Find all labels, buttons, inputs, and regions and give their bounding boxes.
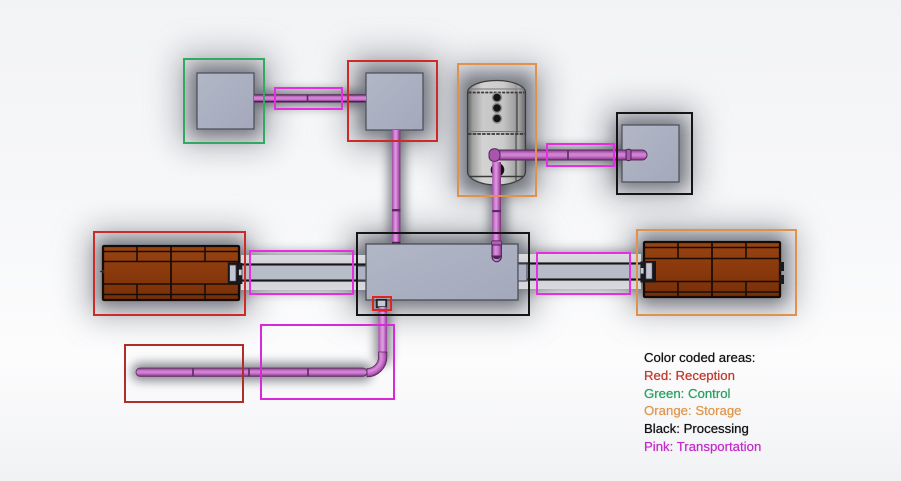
black outline: right processing area [616,112,693,195]
red outline: small nub area [372,296,392,311]
tank hole 1 [492,92,502,102]
storage tank [468,81,526,186]
gray box 1 (control) [197,73,254,129]
orange outline: right conveyor storage area [636,229,797,316]
tank bottom flange ring [491,163,505,177]
belt end bracket conveyor 2 [640,262,644,283]
pipe: tank down into processing box [492,162,502,262]
right connector tab [518,264,527,281]
roller at right end of conveyor 1 [228,263,240,285]
upper section tint [468,93,526,135]
soft shadow halo: bottom pipe riser [375,305,391,365]
soft shadow halo: right belt line [516,252,646,290]
soft shadow halo: left belt line [238,253,368,291]
soft shadow halo: right conveyor [639,236,785,303]
soft shadow halo: left conveyor [98,240,244,306]
soft shadow halo: control box [191,67,260,135]
pink outline: tank pipe transport [546,143,615,167]
belt line right (conveyor between processing box and brown box 2) [517,254,641,289]
soft shadow halo: vertical pipe from box2 [388,128,405,246]
tank mid seam [468,133,525,135]
left connector tab [357,266,366,280]
soft shadow halo: bottom pipe run [132,363,372,381]
tank hole 3 [492,113,502,123]
tank top seam [469,92,525,94]
tank right panel line [516,93,518,133]
soft shadow halo: tank right pipe [490,146,650,164]
coupling at box entry [492,241,502,245]
soft shadow halo: reception top box [360,67,429,136]
pipe: control box to reception box [254,94,366,102]
nub at right end of conveyor 2 [779,262,784,271]
soft shadow halo wide: top cluster [175,50,275,150]
pink outline: bottom pipe transport [260,324,395,400]
origin arrow marker at left of conveyor 1 [100,270,105,274]
legend [644,349,761,456]
pipe elbow at tank [489,149,500,162]
pink outline: left belt transport [249,250,354,295]
soft shadow halo: top pipe 1 [252,90,368,107]
soft shadow halo: storage tank [461,75,532,192]
green outline: control area [183,58,265,144]
pipe: tank to right gray box [489,149,647,162]
pipe: reception box down to processing box [392,130,400,244]
brown conveyor box 1 (left, reception) [100,246,243,300]
red outline: bottom pipe area [124,344,244,403]
small square nub below box [377,300,386,307]
soft shadow halo: right black box [616,119,685,188]
pink outline: right belt transport [536,252,631,295]
red outline: reception top area [347,60,438,142]
soft shadow halo: tank down pipe [489,160,507,248]
tank bottom seam [470,176,523,178]
black outline: central processing area [356,232,530,316]
belt line left (conveyor between brown box 1 and processing box) [241,255,366,290]
red outline: reception left conveyor area [93,231,246,316]
roller at left end of conveyor 2 [644,261,656,283]
brown conveyor box 2 (right, storage) [640,242,784,297]
central processing box [357,244,527,307]
orange outline: tank storage area [457,63,537,197]
soft shadow halo: central processing box [360,238,524,306]
tank hole 2 [492,103,502,113]
gray box 3 (right processing small) [622,125,679,182]
pipe: bottom run with elbow [136,307,387,377]
belt end bracket conveyor 1 [239,263,243,284]
pink outline: pipe 1 transport [274,87,343,110]
pipe segment inside processing box [492,245,501,262]
gray box 2 (reception top) [366,73,423,130]
